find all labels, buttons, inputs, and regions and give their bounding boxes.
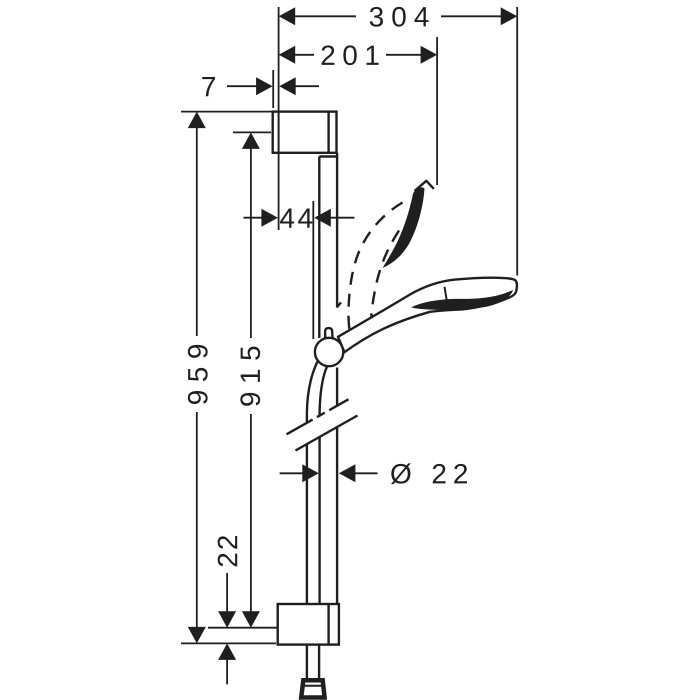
- dimension 959 vertical: [196, 127, 198, 628]
- bottom bracket: [278, 604, 339, 645]
- break line lower: [296, 416, 358, 451]
- rail: [319, 153, 337, 604]
- extension line bottom y=627.7: [208, 627, 278, 629]
- break line upper: [287, 399, 349, 434]
- label 22: [218, 536, 238, 566]
- raised handshower dashed right curve: [371, 231, 399, 319]
- label O 22: [391, 463, 467, 484]
- rail right edge lower: [336, 368, 338, 604]
- label 304: [370, 7, 429, 27]
- head tick: [445, 287, 447, 300]
- label 915: [240, 347, 260, 406]
- extension line bottom y=643.4: [181, 642, 276, 644]
- hose right edge: [320, 367, 327, 604]
- hose nut: [301, 680, 324, 697]
- extension line left main: [278, 7, 280, 230]
- ball joint: [315, 338, 343, 366]
- rail right edge upper: [336, 153, 338, 308]
- hose below bracket: [307, 645, 319, 681]
- dimension 915 vertical: [250, 148, 252, 612]
- rail top cap: [319, 155, 337, 157]
- top bracket: [273, 112, 337, 153]
- dimension 44: [244, 217, 355, 219]
- break band: [287, 399, 358, 450]
- dimension 304: [294, 15, 502, 17]
- handshower solid body: [338, 278, 517, 352]
- label 7: [202, 77, 215, 96]
- slider dash near ball: [337, 303, 341, 308]
- extension line y=132.4: [233, 131, 271, 133]
- dimension 7: [227, 85, 319, 87]
- extension tick for 7: [272, 70, 274, 108]
- label 201: [322, 45, 379, 65]
- raised handshower spray face crescent: [383, 187, 425, 268]
- raised handshower dashed left curve: [348, 203, 402, 334]
- extension line right x=517: [516, 7, 518, 276]
- dimension diameter 22: [280, 472, 378, 474]
- label 959: [188, 345, 208, 404]
- rail left edge: [318, 157, 320, 339]
- hose left edge: [307, 362, 318, 604]
- slider knob: [325, 328, 333, 339]
- hose nut inner line: [303, 685, 324, 687]
- extension line x=437: [436, 37, 438, 185]
- handshower spray face crescent: [411, 290, 513, 310]
- label 44: [280, 209, 312, 228]
- extension tick 44 right: [312, 201, 314, 339]
- dimension 22 vertical bottom: [226, 573, 228, 684]
- extension line top y=111.6: [181, 111, 272, 113]
- dimension 201: [294, 54, 421, 56]
- raised handshower head cap: [415, 181, 434, 191]
